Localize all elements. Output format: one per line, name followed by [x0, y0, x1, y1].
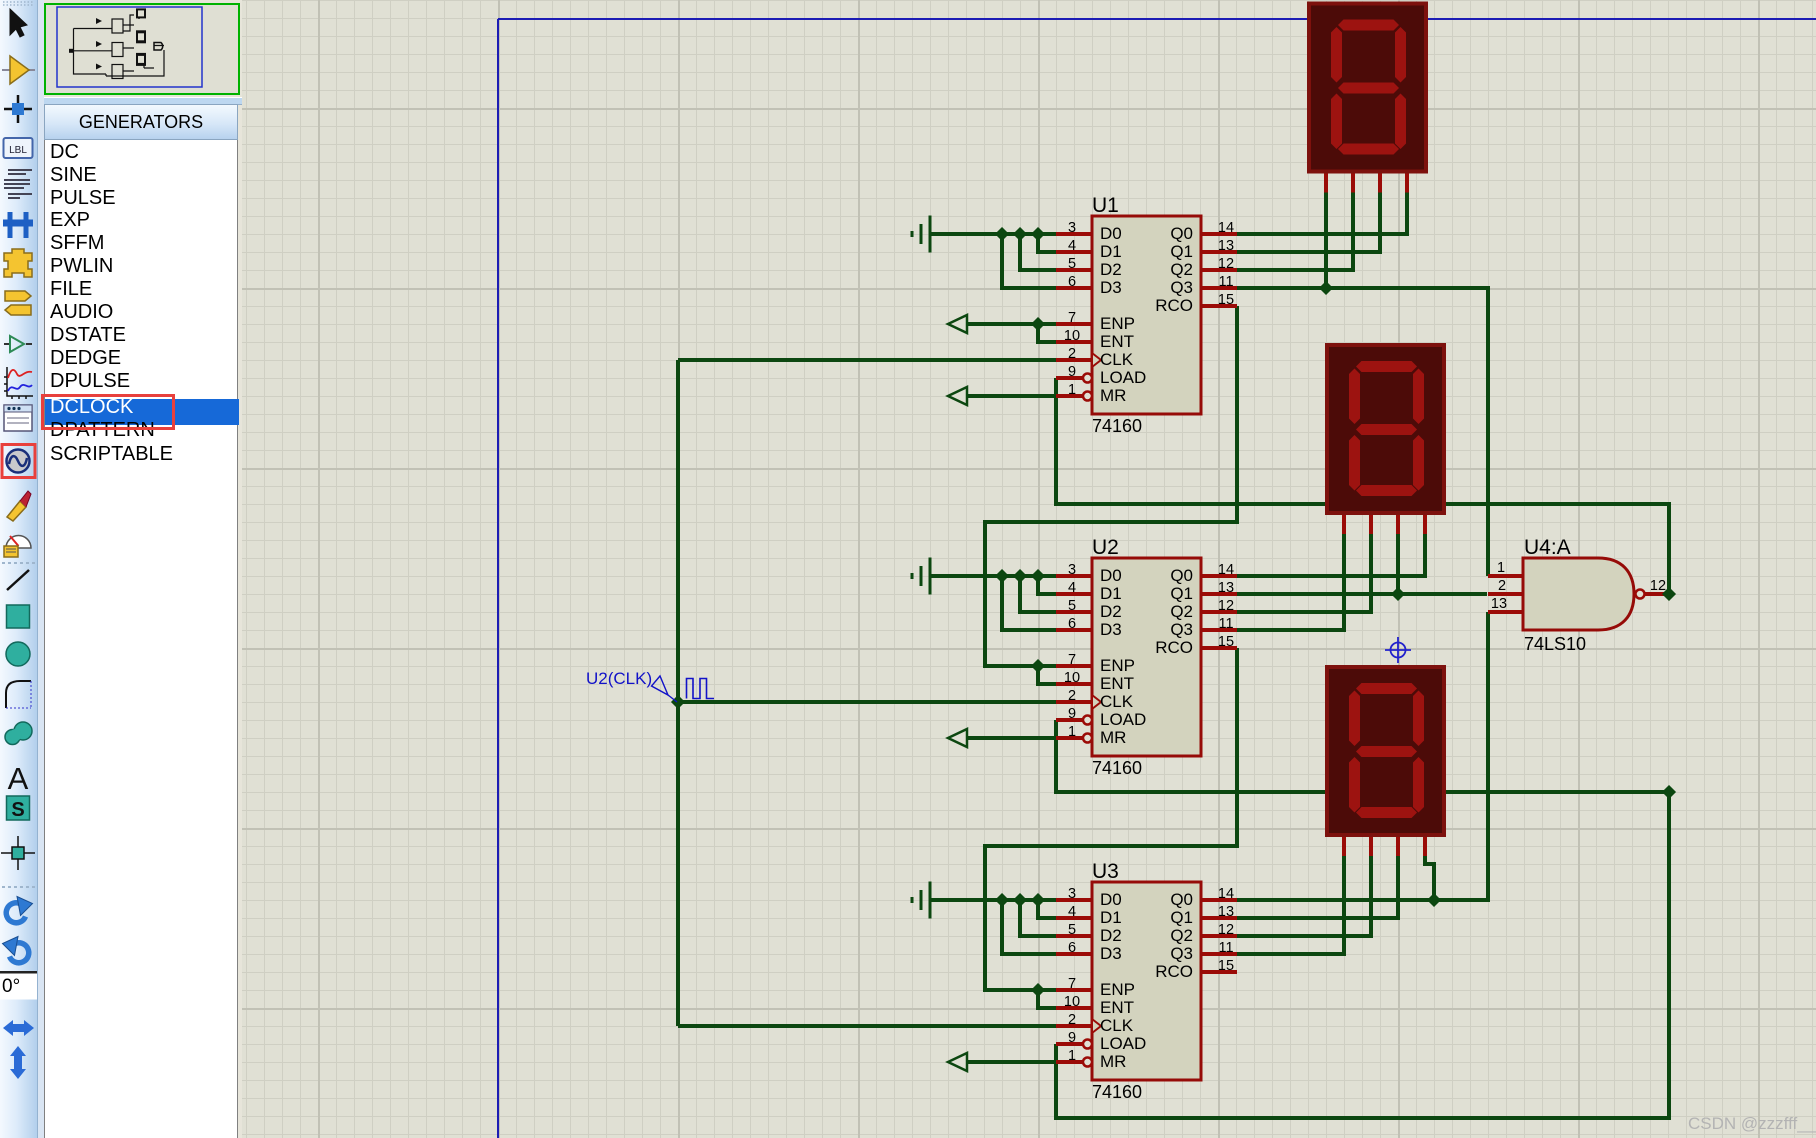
svg-text:74LS10: 74LS10 — [1524, 634, 1586, 654]
svg-text:U2(CLK): U2(CLK) — [586, 669, 652, 688]
svg-text:U2: U2 — [1092, 536, 1119, 559]
svg-text:2: 2 — [1498, 578, 1506, 594]
svg-text:LBL: LBL — [9, 145, 27, 156]
svg-text:12: 12 — [1650, 578, 1666, 594]
svg-text:U3: U3 — [1092, 860, 1119, 883]
svg-text:U1: U1 — [1092, 194, 1119, 217]
svg-text:U4:A: U4:A — [1524, 536, 1571, 559]
svg-text:CSDN @zzzfff___: CSDN @zzzfff___ — [1688, 1114, 1816, 1133]
svg-text:A: A — [8, 761, 29, 796]
svg-text:0°: 0° — [2, 976, 20, 997]
svg-text:1: 1 — [1497, 560, 1505, 576]
svg-text:S: S — [11, 799, 24, 821]
svg-text:13: 13 — [1491, 596, 1507, 612]
